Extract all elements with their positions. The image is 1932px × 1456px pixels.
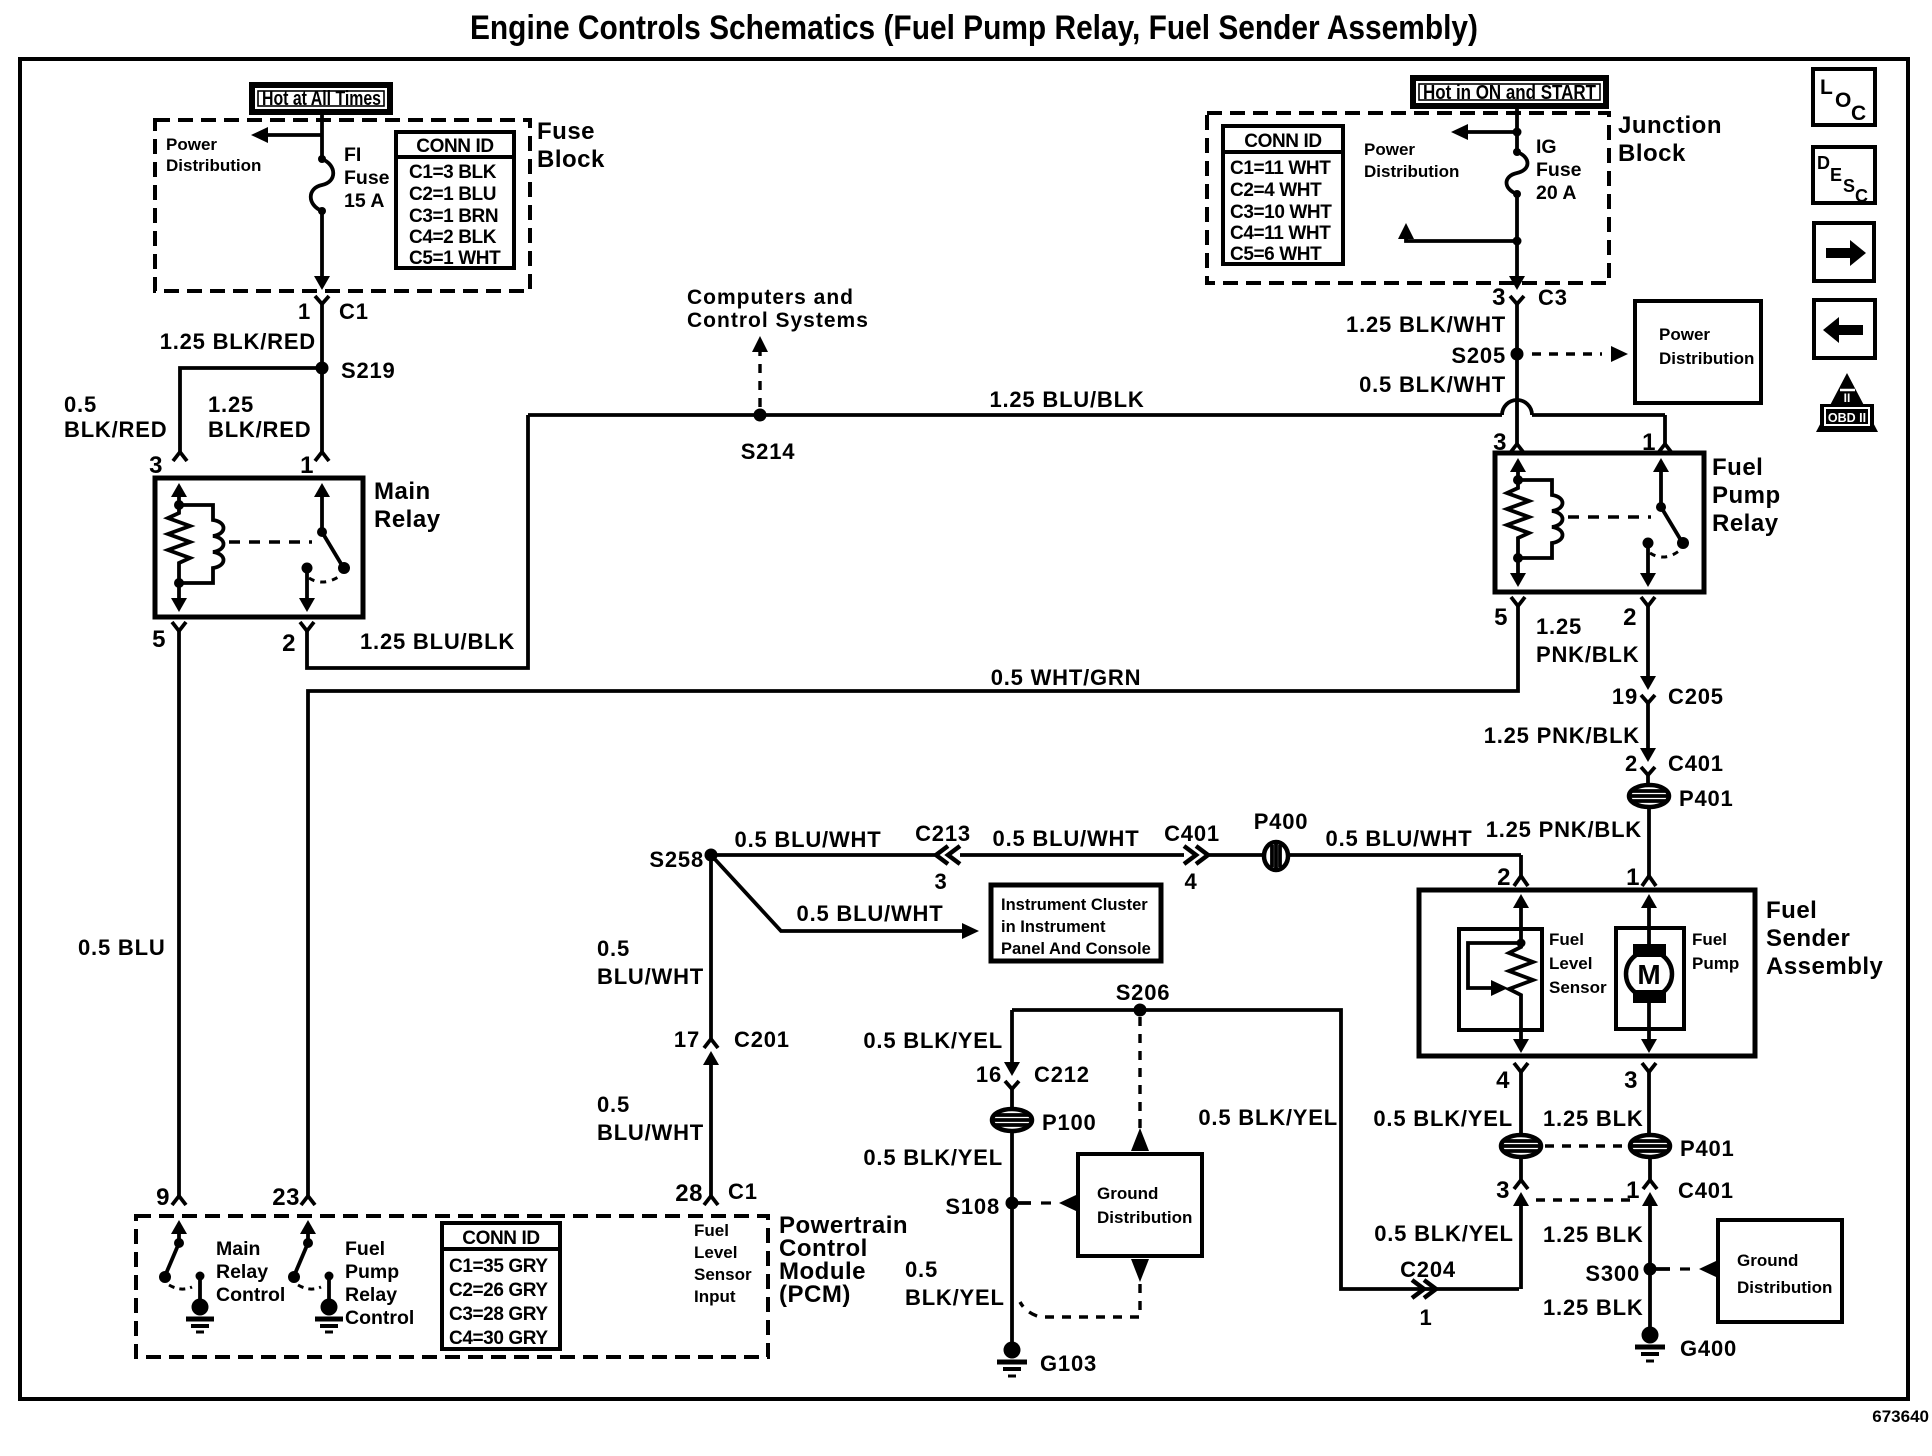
fuel sender pin 2 arrow inside xyxy=(1513,894,1529,908)
svg-text:C1=11 WHT: C1=11 WHT xyxy=(1230,158,1331,179)
left arrow nav box xyxy=(1814,300,1875,358)
ground distribution reference box (right) xyxy=(1718,1220,1842,1322)
svg-text:Panel And Console: Panel And Console xyxy=(1001,940,1151,958)
svg-text:BLK/RED: BLK/RED xyxy=(64,417,167,442)
fuel pump relay coil xyxy=(1518,480,1563,558)
wire from fuse down to C1 xyxy=(320,211,324,278)
svg-text:Fuse: Fuse xyxy=(537,118,595,145)
connector C401 pin 1 xyxy=(1643,1180,1657,1189)
svg-text:0.5 WHT/GRN: 0.5 WHT/GRN xyxy=(991,665,1142,690)
grommet P401 left xyxy=(1501,1135,1541,1157)
fuel sender pin 1 fork xyxy=(1642,876,1656,886)
svg-text:L: L xyxy=(1820,76,1833,99)
svg-text:(PCM): (PCM) xyxy=(779,1281,851,1308)
wiper arrow xyxy=(1468,943,1521,988)
svg-text:C401: C401 xyxy=(1678,1178,1734,1203)
main relay resistor xyxy=(168,505,190,583)
svg-text:Fuel: Fuel xyxy=(1549,930,1584,949)
svg-text:2: 2 xyxy=(282,630,296,657)
svg-text:C401: C401 xyxy=(1164,821,1220,846)
ground distribution reference box (middle) xyxy=(1078,1154,1202,1256)
connector C213 pin 3 chevrons xyxy=(936,846,960,864)
svg-text:Hot at All Times: Hot at All Times xyxy=(262,88,381,110)
svg-text:Pump: Pump xyxy=(345,1261,399,1283)
svg-text:Pump: Pump xyxy=(1712,482,1781,509)
svg-text:G400: G400 xyxy=(1680,1336,1737,1361)
fuel pump motor xyxy=(1633,944,1666,957)
svg-text:C213: C213 xyxy=(915,821,971,846)
wire fuel pump relay pin 2 down xyxy=(1646,606,1650,678)
svg-text:1: 1 xyxy=(1626,864,1640,891)
splice S206 xyxy=(1134,1004,1147,1017)
wire IG fuse down to C3 xyxy=(1515,194,1519,278)
svg-text:Distribution: Distribution xyxy=(166,156,261,175)
svg-text:C3=1 BRN: C3=1 BRN xyxy=(409,206,498,227)
svg-text:in Instrument: in Instrument xyxy=(1001,918,1106,936)
svg-text:Distribution: Distribution xyxy=(1737,1278,1832,1297)
svg-text:Sensor: Sensor xyxy=(1549,978,1607,997)
fuel pump relay coil branch arrow xyxy=(1510,458,1526,472)
svg-text:1.25 BLU/BLK: 1.25 BLU/BLK xyxy=(360,629,515,654)
svg-text:Power: Power xyxy=(1659,325,1710,344)
svg-text:C401: C401 xyxy=(1668,751,1724,776)
svg-text:Fuel: Fuel xyxy=(345,1238,385,1260)
svg-text:C1: C1 xyxy=(728,1179,758,1204)
grommet P100 xyxy=(992,1109,1032,1131)
svg-text:S: S xyxy=(1843,176,1855,196)
fuel sender pin 1 arrow inside xyxy=(1641,894,1657,908)
power distribution arrow (junction block) xyxy=(1464,130,1517,134)
pin 5 fork below fuel pump relay xyxy=(1511,597,1525,606)
power distribution arrow (fuse block) xyxy=(264,133,322,137)
conn id table (fuse block) xyxy=(396,132,514,268)
svg-text:0.5: 0.5 xyxy=(597,936,630,961)
svg-text:Pump: Pump xyxy=(1692,954,1739,973)
fuel pump relay control driver xyxy=(300,1220,316,1234)
main relay coil branch arrow pin 3 xyxy=(171,483,187,497)
branch wire S219 to main relay pin 3 xyxy=(180,368,322,452)
LOC nav box xyxy=(1813,69,1875,125)
svg-text:2: 2 xyxy=(1625,751,1638,776)
main relay coil-switch dashed link xyxy=(229,540,312,544)
svg-text:Input: Input xyxy=(694,1287,736,1306)
svg-text:5: 5 xyxy=(1494,604,1508,631)
main relay coil xyxy=(179,505,224,583)
fuse IG 20A symbol xyxy=(1513,148,1521,156)
svg-text:0.5 BLK/YEL: 0.5 BLK/YEL xyxy=(1373,1106,1513,1131)
svg-text:C201: C201 xyxy=(734,1027,790,1052)
svg-text:C4=11 WHT: C4=11 WHT xyxy=(1230,223,1331,244)
svg-text:0.5 BLK/YEL: 0.5 BLK/YEL xyxy=(1198,1105,1338,1130)
svg-text:C5=6 WHT: C5=6 WHT xyxy=(1230,244,1322,265)
fuel pump relay coil-switch dashed link xyxy=(1568,515,1651,519)
svg-text:S258: S258 xyxy=(649,847,704,872)
svg-text:P401: P401 xyxy=(1680,1136,1735,1161)
svg-text:1.25 BLU/BLK: 1.25 BLU/BLK xyxy=(989,387,1144,412)
svg-text:Assembly: Assembly xyxy=(1766,953,1884,980)
wires below P401 grommets xyxy=(1519,1157,1523,1180)
svg-text:Control: Control xyxy=(345,1307,414,1329)
wire main relay pin 2 to S214 riser xyxy=(307,415,528,668)
svg-text:BLU/WHT: BLU/WHT xyxy=(597,964,704,989)
svg-text:G103: G103 xyxy=(1040,1351,1097,1376)
connector C212 pin 16 xyxy=(1004,1062,1020,1076)
main relay box xyxy=(155,478,363,617)
svg-text:0.5 BLU/WHT: 0.5 BLU/WHT xyxy=(1326,826,1473,851)
S214 horizontal wire 1.25 BLU/BLK xyxy=(528,413,1502,417)
svg-text:S206: S206 xyxy=(1116,980,1171,1005)
svg-text:Control: Control xyxy=(216,1284,285,1306)
fuel level sensor variable resistor xyxy=(1517,939,1526,948)
svg-text:Fuse: Fuse xyxy=(344,167,390,189)
svg-text:C5=1 WHT: C5=1 WHT xyxy=(409,248,501,269)
svg-text:C3=28 GRY: C3=28 GRY xyxy=(449,1304,548,1325)
svg-text:Relay: Relay xyxy=(216,1261,268,1283)
svg-text:15 A: 15 A xyxy=(344,190,384,212)
svg-text:16: 16 xyxy=(976,1062,1002,1087)
svg-text:0.5: 0.5 xyxy=(64,392,97,417)
svg-text:Hot in ON and START: Hot in ON and START xyxy=(1423,82,1596,104)
svg-text:0.5 BLU/WHT: 0.5 BLU/WHT xyxy=(993,826,1140,851)
svg-text:IG: IG xyxy=(1536,136,1557,158)
wire corner down to fuel sender pin 2 xyxy=(1519,855,1523,876)
main relay switch pin 1 xyxy=(314,483,330,497)
fuel pump output arrow xyxy=(1647,1029,1651,1046)
svg-text:Relay: Relay xyxy=(345,1284,397,1306)
svg-text:C2=26 GRY: C2=26 GRY xyxy=(449,1280,548,1301)
fuel sender assembly box xyxy=(1419,890,1755,1056)
wire P401 to fuel sender pin 1 xyxy=(1647,807,1651,876)
svg-text:Level: Level xyxy=(694,1243,737,1262)
svg-text:0.5 BLK/YEL: 0.5 BLK/YEL xyxy=(863,1028,1003,1053)
svg-text:Fuse: Fuse xyxy=(1536,159,1582,181)
svg-text:17: 17 xyxy=(674,1027,700,1052)
fuel level sensor output arrow xyxy=(1519,1030,1523,1046)
connector C1 pin 1 xyxy=(315,296,329,304)
conn id table (PCM) xyxy=(442,1223,560,1349)
svg-text:2: 2 xyxy=(1623,604,1637,631)
svg-text:C2=4 WHT: C2=4 WHT xyxy=(1230,180,1322,201)
svg-text:M: M xyxy=(1637,959,1660,990)
splice S258 xyxy=(705,849,718,862)
junction block dashed box xyxy=(1207,113,1609,283)
svg-text:Main: Main xyxy=(374,478,431,505)
svg-text:C1=3 BLK: C1=3 BLK xyxy=(409,162,497,183)
svg-text:1.25 PNK/BLK: 1.25 PNK/BLK xyxy=(1486,817,1642,842)
svg-text:S108: S108 xyxy=(945,1194,1000,1219)
grommet P401 xyxy=(1629,785,1669,807)
main relay switch pin 2 contact xyxy=(302,563,313,574)
svg-text:0.5 BLK/YEL: 0.5 BLK/YEL xyxy=(1374,1221,1514,1246)
svg-text:9: 9 xyxy=(156,1184,170,1211)
DESC nav box xyxy=(1813,147,1875,203)
svg-text:1: 1 xyxy=(1419,1305,1432,1330)
svg-text:C1=35 GRY: C1=35 GRY xyxy=(449,1256,548,1277)
fuel pump relay switch pin 2 contact xyxy=(1643,538,1654,549)
svg-text:Block: Block xyxy=(537,146,605,173)
hot at all times label box xyxy=(252,85,390,112)
svg-text:PNK/BLK: PNK/BLK xyxy=(1536,642,1639,667)
svg-text:C: C xyxy=(1851,102,1866,125)
wire hop over BLK/WHT riser xyxy=(1502,400,1532,415)
pin 1 fork xyxy=(315,452,329,461)
fuel sender pin 3 fork xyxy=(1642,1063,1656,1072)
svg-text:1.25 BLK/WHT: 1.25 BLK/WHT xyxy=(1346,312,1506,337)
svg-text:C205: C205 xyxy=(1668,684,1724,709)
svg-text:Level: Level xyxy=(1549,954,1592,973)
svg-text:Engine Controls Schematics (Fu: Engine Controls Schematics (Fuel Pump Re… xyxy=(470,9,1478,47)
fuel pump relay switch pin 1 xyxy=(1653,458,1669,472)
dashed arrow S205 to power distribution xyxy=(1532,352,1602,355)
splice S108 xyxy=(1006,1197,1019,1210)
svg-text:BLK/RED: BLK/RED xyxy=(208,417,311,442)
svg-text:Fuel: Fuel xyxy=(1712,454,1763,481)
connector C201 pin 17 xyxy=(704,1039,718,1048)
svg-text:S219: S219 xyxy=(341,358,396,383)
svg-text:Sender: Sender xyxy=(1766,925,1850,952)
svg-text:0.5 BLU/WHT: 0.5 BLU/WHT xyxy=(797,901,944,926)
svg-text:Ground: Ground xyxy=(1097,1184,1158,1203)
svg-text:Main: Main xyxy=(216,1238,260,1260)
svg-text:C3=10 WHT: C3=10 WHT xyxy=(1230,202,1332,223)
dashed arrow to computers and control systems xyxy=(758,352,761,407)
svg-text:S214: S214 xyxy=(741,439,796,464)
svg-text:3: 3 xyxy=(1496,1177,1510,1204)
svg-text:Power: Power xyxy=(166,135,217,154)
svg-text:Sensor: Sensor xyxy=(694,1265,752,1284)
svg-text:1: 1 xyxy=(300,452,314,479)
svg-text:Distribution: Distribution xyxy=(1364,162,1459,181)
svg-text:0.5 BLU/WHT: 0.5 BLU/WHT xyxy=(735,827,882,852)
svg-text:C3: C3 xyxy=(1538,285,1568,310)
svg-text:CONN ID: CONN ID xyxy=(1244,131,1321,152)
svg-text:5: 5 xyxy=(152,626,166,653)
splice S300 xyxy=(1644,1263,1657,1276)
svg-text:23: 23 xyxy=(272,1184,300,1211)
svg-text:C212: C212 xyxy=(1034,1062,1090,1087)
connector C401 pin 3 xyxy=(1514,1180,1528,1189)
wire hot in on/start down to IG fuse xyxy=(1515,106,1519,152)
svg-text:CONN ID: CONN ID xyxy=(462,1228,539,1249)
main relay control driver xyxy=(171,1220,187,1234)
connector C401 pin 2 xyxy=(1640,748,1656,762)
connector C401 pin 4 chevrons xyxy=(1184,846,1208,864)
pin 2 fork below main relay xyxy=(300,622,314,631)
svg-text:S300: S300 xyxy=(1585,1261,1640,1286)
grommet P401 right xyxy=(1630,1135,1670,1157)
svg-text:P100: P100 xyxy=(1042,1110,1097,1135)
dashed arrow S108 from ground distribution xyxy=(1012,1201,1031,1205)
svg-text:C204: C204 xyxy=(1400,1257,1456,1282)
svg-text:Power: Power xyxy=(1364,140,1415,159)
svg-text:E: E xyxy=(1830,165,1842,185)
svg-text:BLK/YEL: BLK/YEL xyxy=(905,1285,1005,1310)
svg-text:1.25 PNK/BLK: 1.25 PNK/BLK xyxy=(1484,723,1640,748)
svg-text:0.5 BLU: 0.5 BLU xyxy=(78,935,166,960)
svg-text:0.5 BLK/WHT: 0.5 BLK/WHT xyxy=(1359,372,1506,397)
svg-text:Distribution: Distribution xyxy=(1659,349,1754,368)
svg-text:1.25: 1.25 xyxy=(1536,614,1582,639)
svg-text:C1: C1 xyxy=(339,299,369,324)
svg-text:3: 3 xyxy=(149,452,163,479)
svg-text:3: 3 xyxy=(1624,1067,1638,1094)
svg-text:0.5 BLK/YEL: 0.5 BLK/YEL xyxy=(863,1145,1003,1170)
svg-text:Fuel: Fuel xyxy=(694,1221,729,1240)
fuse FI 15A symbol xyxy=(318,155,326,163)
wire P100 down to G103 xyxy=(1010,1131,1014,1345)
svg-text:Instrument Cluster: Instrument Cluster xyxy=(1001,896,1148,914)
svg-text:Relay: Relay xyxy=(1712,510,1779,537)
svg-text:P400: P400 xyxy=(1254,809,1309,834)
svg-text:4: 4 xyxy=(1496,1067,1510,1094)
svg-text:C4=2 BLK: C4=2 BLK xyxy=(409,227,497,248)
svg-text:Block: Block xyxy=(1618,140,1686,167)
splice S205 xyxy=(1511,348,1524,361)
wire C1 to S219 to main relay pin 1 xyxy=(320,322,324,452)
pin 5 fork below main relay xyxy=(172,622,186,631)
grommet P400 xyxy=(1264,842,1288,870)
svg-text:C2=1 BLU: C2=1 BLU xyxy=(409,184,496,205)
svg-text:0.5: 0.5 xyxy=(905,1257,938,1282)
svg-text:1.25 BLK: 1.25 BLK xyxy=(1543,1106,1644,1131)
svg-text:1.25 BLK/RED: 1.25 BLK/RED xyxy=(160,329,316,354)
pin 2 fork below fuel pump relay xyxy=(1641,597,1655,606)
0.5 WHT/GRN wire PCM pin 23 to fuel pump relay pin 5 xyxy=(308,606,1518,1196)
PCM dashed box xyxy=(136,1216,768,1357)
dashed link ground distribution box to G103 wire xyxy=(1131,1259,1149,1282)
connector C204 pin 1 chevrons xyxy=(1412,1280,1436,1298)
svg-text:II: II xyxy=(1844,391,1851,405)
svg-text:Distribution: Distribution xyxy=(1097,1208,1192,1227)
svg-text:Computers and: Computers and xyxy=(687,286,854,309)
pin 3 fork xyxy=(173,452,187,461)
hot in ON and START label box xyxy=(1413,78,1606,106)
fuel pump inner box xyxy=(1616,928,1684,1029)
svg-text:O: O xyxy=(1835,89,1851,112)
svg-text:C: C xyxy=(1855,186,1868,206)
svg-text:S205: S205 xyxy=(1451,343,1506,368)
svg-text:OBD II: OBD II xyxy=(1828,411,1866,425)
svg-text:Junction: Junction xyxy=(1618,112,1722,139)
svg-text:2: 2 xyxy=(1497,864,1511,891)
fuel pump relay pin 3 fork xyxy=(1510,444,1524,453)
svg-text:1.25: 1.25 xyxy=(208,392,254,417)
0.5 BLU/WHT wire S258 down xyxy=(709,855,713,1039)
ground G400 xyxy=(1642,1327,1659,1344)
svg-text:20 A: 20 A xyxy=(1536,182,1576,204)
splice S219 xyxy=(316,362,329,375)
svg-text:BLU/WHT: BLU/WHT xyxy=(597,1120,704,1145)
right arrow nav box xyxy=(1814,223,1874,281)
PCM pin 9 fork xyxy=(172,1196,186,1205)
dashed link S206 to ground distribution box xyxy=(1138,1017,1141,1132)
svg-text:4: 4 xyxy=(1184,869,1197,894)
svg-text:1: 1 xyxy=(298,299,311,324)
fuel pump relay resistor xyxy=(1507,480,1529,558)
svg-text:673640: 673640 xyxy=(1872,1407,1929,1426)
OBD II warning triangle xyxy=(1816,373,1878,432)
svg-text:3: 3 xyxy=(1492,284,1506,311)
svg-text:28: 28 xyxy=(675,1180,703,1207)
svg-text:3: 3 xyxy=(934,869,947,894)
dashed arrow S300 to ground distribution xyxy=(1650,1267,1670,1271)
svg-text:Fuel: Fuel xyxy=(1766,897,1817,924)
fuel pump relay pin 1 fork xyxy=(1658,444,1672,453)
ground G103 xyxy=(1004,1342,1021,1359)
svg-text:1.25 BLK: 1.25 BLK xyxy=(1543,1222,1644,1247)
svg-text:C4=30 GRY: C4=30 GRY xyxy=(449,1328,548,1349)
S258 branch to instrument cluster xyxy=(711,855,963,931)
branch with up arrow inside junction block xyxy=(1406,234,1517,241)
splice S214 xyxy=(754,409,767,422)
svg-text:1.25 BLK: 1.25 BLK xyxy=(1543,1295,1644,1320)
wire from hot at all times to fuse FI xyxy=(320,112,324,159)
fuel sender pin 4 fork xyxy=(1514,1063,1528,1072)
fuse block dashed box xyxy=(155,120,530,291)
svg-text:D: D xyxy=(1817,153,1830,173)
PCM pin 23 fork xyxy=(301,1196,315,1205)
svg-text:Ground: Ground xyxy=(1737,1251,1798,1270)
instrument cluster reference box xyxy=(991,885,1161,961)
wire main relay pin 5 down to PCM pin 9 (0.5 BLU) xyxy=(177,631,181,1196)
fuel level sensor inner box xyxy=(1459,929,1542,1030)
svg-text:CONN ID: CONN ID xyxy=(416,136,493,157)
svg-text:19: 19 xyxy=(1612,684,1638,709)
conn id table (junction block) xyxy=(1223,126,1343,264)
PCM pin 28 fork xyxy=(704,1196,718,1205)
fuel pump relay box xyxy=(1495,453,1704,592)
svg-text:Control Systems: Control Systems xyxy=(687,309,869,332)
connector C205 pin 19 xyxy=(1641,695,1655,703)
svg-text:Fuel: Fuel xyxy=(1692,930,1727,949)
0.5 BLU/WHT wire S258 to fuel sender pin 2 xyxy=(711,853,936,857)
connector C3 pin 3 xyxy=(1510,296,1524,304)
svg-text:0.5: 0.5 xyxy=(597,1092,630,1117)
svg-text:FI: FI xyxy=(344,144,361,166)
S206 ground wire network xyxy=(1012,1010,1519,1289)
svg-text:P401: P401 xyxy=(1679,786,1734,811)
svg-text:Relay: Relay xyxy=(374,506,441,533)
power distribution reference box xyxy=(1635,301,1761,403)
